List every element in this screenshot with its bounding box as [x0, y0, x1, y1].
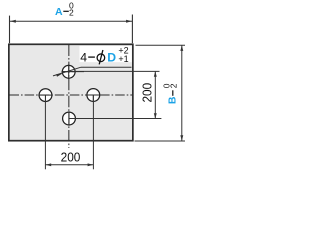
svg-text:2: 2 [69, 8, 74, 18]
hole label leader arrowhead [56, 74, 62, 77]
center cross hole H4 [69, 111, 76, 125]
extension line right from hole H4 [69, 118, 161, 120]
svg-text:4: 4 [80, 50, 87, 64]
center cross hole H2 [38, 95, 52, 102]
dimension B arrow top [180, 45, 183, 51]
dimension A line [10, 20, 132, 22]
extension line right from hole H1 [69, 70, 160, 72]
dimension B line [181, 45, 183, 140]
dimension B arrow bottom [180, 135, 183, 141]
hole H3 right [87, 89, 100, 102]
center cross hole H1 [62, 65, 77, 80]
extension line down from hole H2 [44, 95, 46, 169]
svg-text:B: B [167, 96, 179, 104]
dimension 200 bottom arrow right [88, 163, 94, 166]
dimension B extension line top [136, 44, 186, 46]
dimension A arrow right [126, 20, 132, 23]
dimension 200 bottom arrow left [46, 163, 52, 166]
centerline horizontal through holes H2/H3 [10, 94, 133, 96]
svg-text:2: 2 [168, 83, 178, 88]
hole H4 bottom [63, 112, 76, 125]
hole H2 left [39, 89, 52, 102]
centerline vertical through holes H1/H4 [68, 45, 70, 149]
extension line down from hole H3 [92, 95, 94, 169]
center cross hole H3 [86, 95, 109, 102]
dimension 200 vertical arrow top [154, 71, 157, 77]
dimension 200 vertical line [154, 71, 156, 118]
dimension 200 vertical arrow bottom [154, 113, 157, 119]
dimension A arrow left [10, 20, 16, 23]
dimension B extension line bottom [135, 140, 186, 142]
dimension A extension line right [131, 15, 133, 44]
svg-text:A: A [55, 6, 63, 18]
svg-text:200: 200 [61, 149, 81, 164]
dimension B label [161, 83, 178, 104]
svg-text:D: D [107, 51, 116, 65]
hole label underline [81, 66, 132, 68]
plate outline [9, 44, 133, 140]
dimension A label [55, 1, 74, 18]
dimension 200 bottom line [45, 164, 93, 166]
dimension A extension line left [9, 16, 11, 44]
hole label 4-phiD +2/+1 [80, 45, 132, 64]
svg-text:200: 200 [140, 83, 154, 103]
hole label leader line [53, 67, 81, 76]
svg-text:+1: +1 [118, 54, 128, 64]
hole H1 top [62, 65, 75, 78]
centerline horizontal short through hole H1 [62, 71, 85, 73]
